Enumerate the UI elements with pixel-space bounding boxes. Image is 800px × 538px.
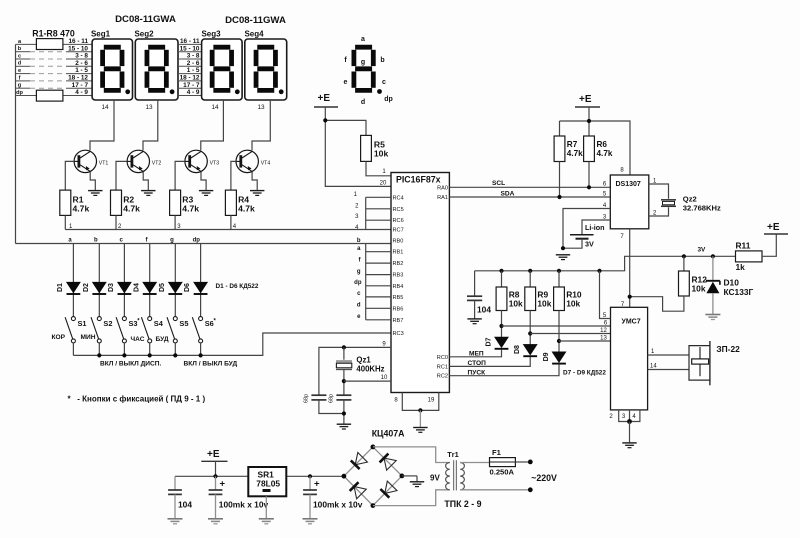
svg-text:100mk x 10v: 100mk x 10v	[219, 500, 269, 510]
svg-text:RC6: RC6	[393, 218, 404, 224]
svg-text:4.7k: 4.7k	[597, 149, 613, 158]
junction R12 top	[682, 254, 686, 258]
svg-text:b: b	[94, 238, 98, 244]
svg-text:16 - 11: 16 - 11	[68, 38, 88, 45]
switch S4	[141, 317, 151, 343]
svg-text:13: 13	[600, 336, 607, 342]
svg-text:RB6: RB6	[393, 306, 404, 312]
junction battery ground	[561, 246, 565, 250]
svg-text:D10: D10	[724, 278, 740, 288]
svg-text:D3: D3	[108, 283, 115, 292]
wire DS pin4 to ground	[563, 209, 610, 249]
ground D10 (gray)	[705, 315, 720, 320]
wire to UMS7 pin6	[502, 325, 611, 327]
wire digit bus riser at PIC	[365, 197, 367, 229]
svg-text:13: 13	[257, 104, 265, 111]
wire segment bus left vertical	[15, 44, 17, 243]
svg-text:VT1: VT1	[99, 161, 109, 167]
wire PIC pin9 to crystal	[319, 347, 391, 395]
svg-text:14: 14	[101, 104, 109, 111]
resistor R12	[679, 271, 690, 296]
wire PSU output rail	[175, 475, 344, 477]
wire R9 bottom to D8	[529, 311, 531, 345]
wire SR1 ground	[265, 496, 267, 518]
resistor R6	[584, 136, 595, 162]
svg-text:dp: dp	[384, 96, 393, 103]
diode D2	[92, 282, 106, 294]
svg-text:ЗП-22: ЗП-22	[716, 344, 740, 354]
wire R6 to SCL	[588, 162, 590, 188]
wire UMS7 pin1 to buzzer	[648, 354, 689, 356]
net labels on key bus a b c f g dp	[68, 238, 200, 244]
pin pair labels left set	[68, 38, 88, 96]
svg-text:Seg3: Seg3	[201, 30, 221, 39]
resistor R1	[60, 190, 71, 215]
svg-text:ВКЛ / ВЫКЛ БУД: ВКЛ / ВЫКЛ БУД	[184, 361, 238, 368]
wire R5 to PIC pin1	[366, 161, 391, 175]
svg-text:b: b	[357, 238, 361, 244]
ground Q4	[250, 191, 264, 196]
svg-text:Тr1: Тr1	[447, 450, 459, 459]
svg-text:DC08-11GWA: DC08-11GWA	[225, 15, 286, 26]
svg-text:68p: 68p	[329, 394, 335, 403]
junction bridge right	[400, 474, 405, 479]
svg-text:МИН: МИН	[81, 334, 96, 341]
wire S5 bottom drop	[174, 343, 176, 356]
junction bridge left	[342, 474, 347, 479]
svg-text:ЧАС: ЧАС	[131, 336, 145, 343]
switch S5	[167, 317, 177, 343]
resistor R2	[111, 190, 122, 215]
svg-text:RB5: RB5	[393, 295, 404, 301]
wire D6 column	[200, 244, 202, 317]
wire bridge right to ground	[402, 475, 417, 477]
svg-text:a: a	[361, 36, 365, 43]
svg-text:RC5: RC5	[393, 207, 404, 213]
wire D2 column	[98, 244, 100, 317]
terminal line bottom	[528, 487, 533, 492]
svg-text:d: d	[357, 303, 361, 309]
ground bridge	[410, 482, 424, 487]
svg-text:+E: +E	[207, 449, 220, 460]
wire Seg2 pin13 to Q2 collector	[143, 100, 158, 150]
segment row wires a-dp with left labels and dashes	[16, 44, 93, 95]
svg-text:D1: D1	[57, 283, 64, 292]
svg-text:15 - 10: 15 - 10	[68, 45, 88, 52]
resistor R11	[736, 251, 763, 262]
junction +E left	[323, 118, 327, 122]
wires between Seg2 and Seg3 (8 rows)	[178, 44, 202, 95]
wire RC2 PUSK to D9	[449, 364, 559, 375]
svg-text:RC1: RC1	[437, 364, 448, 370]
wire Q1 base to R1	[65, 161, 74, 190]
wire S3 bottom drop	[123, 343, 125, 356]
ground C6 (gray)	[303, 519, 318, 524]
net labels at PIC RB pins	[354, 238, 362, 320]
svg-text:d: d	[18, 61, 22, 67]
ground UMS7	[622, 443, 636, 448]
MAIN	[16, 14, 393, 244]
wire R4 bottom to digit bus	[230, 215, 232, 229]
wire RC5 stub	[366, 208, 391, 210]
svg-text:+E: +E	[318, 93, 331, 104]
svg-text:SDA: SDA	[501, 191, 515, 198]
wire to UMS7 pin12	[530, 333, 610, 335]
display Seg1	[92, 39, 132, 100]
svg-text:dp: dp	[193, 238, 201, 244]
svg-text:78L05: 78L05	[256, 479, 280, 489]
svg-text:D4: D4	[133, 283, 140, 292]
svg-text:МЕП: МЕП	[469, 350, 484, 357]
svg-text:10k: 10k	[374, 149, 389, 159]
crystal Qz2 32.768KHz	[661, 199, 676, 201]
wire Q2 base to R2	[116, 161, 127, 190]
wire UMS7 pin14 to buzzer	[648, 369, 689, 371]
svg-text:SCL: SCL	[492, 180, 505, 187]
wire RB2 stub	[366, 262, 391, 264]
svg-text:S3: S3	[129, 319, 138, 328]
resistor R9	[525, 287, 536, 311]
junction crystal top	[342, 345, 346, 349]
wire +E to R7 R6 and DS pin8	[560, 107, 631, 175]
wire R10 bottom to D9	[558, 311, 560, 352]
diode D4	[143, 282, 157, 294]
svg-text:RA1: RA1	[437, 195, 448, 201]
junction D7 UMS7 pin6	[499, 324, 503, 328]
wire RC1 STOP to D8	[449, 357, 530, 367]
svg-text:b: b	[18, 46, 22, 52]
svg-text:10: 10	[381, 375, 388, 381]
svg-text:0.250А: 0.250А	[490, 468, 515, 477]
wire fuse to line terminal	[515, 461, 530, 463]
svg-text:4.7k: 4.7k	[182, 204, 199, 214]
ground Q1	[88, 191, 102, 196]
junction rail R8	[499, 269, 503, 273]
junction D8 UMS7 pin12	[528, 331, 532, 335]
wire +E drop to rail	[215, 461, 217, 476]
wire transformer primary bottom to terminal	[460, 489, 530, 491]
ground osc	[337, 424, 351, 429]
svg-text:RC4: RC4	[393, 195, 404, 201]
svg-text:~220V: ~220V	[531, 473, 557, 483]
wire PIC pins 8 19 to ground	[402, 393, 439, 411]
wire D5 column	[174, 244, 176, 317]
resistor R10	[554, 287, 565, 311]
wire UMS7 pin5 riser to 3V rail	[600, 271, 611, 319]
wire R11 to +E	[762, 234, 776, 256]
wire segment bus to PIC RB0	[16, 243, 392, 245]
diode D1	[67, 282, 81, 294]
svg-text:+E: +E	[579, 94, 592, 105]
row labels a b c d e f g dp	[16, 39, 23, 96]
svg-text:104: 104	[178, 500, 192, 510]
svg-text:D7: D7	[486, 337, 493, 346]
svg-text:RB2: RB2	[393, 261, 404, 267]
svg-text:4 - 9: 4 - 9	[75, 89, 88, 96]
svg-text:c: c	[18, 53, 21, 59]
wire Q4 base to R4	[231, 161, 236, 190]
junction R6 SCL	[587, 185, 591, 189]
svg-text:RB3: RB3	[393, 273, 404, 279]
segment legend digit	[344, 36, 393, 106]
ground C4 (gray)	[168, 519, 183, 524]
bridge diode bottom-left	[354, 487, 366, 499]
switch S6	[192, 317, 202, 343]
wire RC0 MEL to D7	[449, 350, 501, 357]
svg-text:10k: 10k	[537, 298, 551, 308]
wire keys common to PIC RC3	[73, 333, 391, 355]
svg-text:S6: S6	[205, 319, 214, 328]
wire RB5 stub	[366, 296, 391, 298]
svg-text:13: 13	[145, 104, 153, 111]
svg-text:S5: S5	[179, 319, 188, 328]
svg-text:КС133Г: КС133Г	[724, 287, 754, 297]
svg-text:RC0: RC0	[437, 355, 448, 361]
voltage regulator SR1 78L05	[248, 467, 286, 496]
svg-text:4.7k: 4.7k	[123, 204, 140, 214]
wire R1 bottom to digit bus	[64, 215, 66, 229]
svg-text:e: e	[18, 68, 21, 74]
svg-text:g: g	[18, 83, 22, 89]
ground Q2	[141, 191, 155, 196]
svg-text:g: g	[170, 238, 174, 244]
svg-text:RC2: RC2	[437, 374, 448, 380]
svg-text:10k: 10k	[566, 298, 580, 308]
wire pin10	[344, 380, 391, 382]
svg-text:УМС7: УМС7	[622, 319, 641, 326]
svg-text:VT4: VT4	[261, 161, 271, 167]
ground C5 (gray)	[208, 519, 223, 524]
svg-text:RC3: RC3	[393, 331, 404, 337]
svg-text:32.768KHz: 32.768KHz	[683, 204, 721, 213]
wire D3 column	[123, 244, 125, 317]
junction rail R9	[528, 269, 532, 273]
svg-text:12: 12	[600, 328, 607, 334]
switch S2	[91, 317, 101, 343]
terminal line top	[528, 460, 533, 465]
wire R10 top	[558, 271, 560, 287]
capacitor C3 104	[467, 295, 482, 297]
resistor R3	[170, 190, 181, 215]
switch S1	[65, 317, 75, 343]
wire RB4 stub	[366, 285, 391, 287]
svg-text:S1: S1	[78, 319, 87, 328]
junction S6	[199, 353, 203, 357]
wire R12 bottom zigzag to DS pin7 column	[630, 296, 684, 311]
wire to UMS7 pin13	[559, 340, 611, 342]
svg-text:S4: S4	[154, 319, 164, 328]
wire bridge bottom to transformer secondary	[373, 490, 450, 506]
svg-text:e: e	[344, 79, 348, 86]
transistor Q4	[236, 150, 258, 172]
svg-text:c: c	[382, 79, 386, 86]
capacitor C6 100mk x 10v	[309, 476, 311, 490]
junction bridge bottom	[371, 503, 376, 508]
svg-text:ПУСК: ПУСК	[468, 369, 487, 376]
wire Seg1 pin14 to Q1 collector	[90, 100, 114, 150]
svg-text:f: f	[19, 75, 21, 81]
svg-text:g: g	[361, 59, 365, 66]
switch S3	[116, 317, 126, 343]
junction S3	[122, 353, 126, 357]
wire RB1 stub	[366, 251, 391, 253]
wire R8 top	[501, 271, 503, 287]
svg-text:19: 19	[428, 398, 435, 404]
svg-text:СТОП: СТОП	[468, 360, 487, 367]
diode D3	[118, 282, 132, 294]
bridge rectifier KTs407A	[344, 447, 402, 506]
svg-text:VT3: VT3	[210, 161, 220, 167]
svg-text:D1 - D6 КД522: D1 - D6 КД522	[216, 283, 259, 290]
fuse F1 0.250A	[490, 458, 516, 467]
svg-text:КОР: КОР	[52, 334, 66, 341]
wire R2 bottom to digit bus	[115, 215, 117, 229]
wire Q3 emitter to ground	[201, 172, 206, 191]
wire 3V rail	[475, 256, 736, 296]
junction +E rail	[213, 474, 217, 478]
diode D9	[552, 352, 566, 364]
svg-text:Qz1: Qz1	[356, 356, 371, 365]
wire Q3 base to R3	[175, 161, 185, 190]
wire DS pin3 to battery	[582, 220, 610, 234]
wire transformer primary top to fuse	[460, 462, 489, 464]
junction osc caps	[342, 411, 346, 415]
svg-text:R7: R7	[567, 140, 578, 149]
svg-text:2 - 6: 2 - 6	[75, 60, 88, 67]
resistor network box row dp	[36, 90, 63, 101]
wire S2 bottom drop	[98, 343, 100, 356]
svg-text:D7 - D9 КД522: D7 - D9 КД522	[563, 370, 606, 377]
display Seg3	[202, 39, 243, 100]
svg-text:d: d	[361, 99, 365, 106]
svg-text:RC7: RC7	[393, 228, 404, 234]
wire S4 bottom drop	[149, 343, 151, 356]
svg-text:RB1: RB1	[393, 250, 404, 256]
wire R9 top	[529, 271, 531, 287]
svg-text:* - Кнопки с фиксацией ( ПД: * - Кнопки с фиксацией ( ПД 9 - 1 )	[68, 395, 206, 404]
display Seg2	[135, 39, 178, 100]
wire DS pin2 to crystal	[649, 207, 669, 216]
junction PIC ground	[418, 408, 422, 412]
pin pair labels middle set	[180, 38, 200, 96]
display Seg4	[245, 39, 287, 100]
junction R7 SDA	[557, 195, 561, 199]
wire SDA RA1 to DS pin5	[449, 196, 610, 198]
wire UMS7 pins 2 3 4 to ground	[619, 410, 640, 422]
wire Q4 emitter to ground	[252, 172, 257, 191]
svg-text:D6: D6	[184, 283, 191, 292]
diode D7	[495, 337, 509, 349]
junction rail UMS7 pin5	[597, 269, 601, 273]
svg-text:68p: 68p	[304, 394, 310, 403]
wire bridge top to transformer secondary	[373, 447, 450, 463]
capacitor C2 (right osc cap)	[336, 394, 351, 396]
svg-text:R6: R6	[597, 140, 608, 149]
junction S2	[97, 353, 101, 357]
svg-text:D9: D9	[543, 352, 550, 361]
wire DS pin1 to crystal	[649, 184, 669, 199]
PIC right pin names	[437, 185, 448, 379]
IC U2 DS1307 body	[610, 175, 649, 229]
wire RC4 stub	[366, 196, 391, 198]
svg-text:БУД: БУД	[156, 336, 169, 343]
junction rail R10	[557, 269, 561, 273]
svg-text:17 - 7: 17 - 7	[72, 82, 89, 89]
svg-text:+: +	[220, 479, 226, 490]
svg-text:20: 20	[380, 181, 387, 187]
capacitor C1 (left osc cap)	[311, 394, 326, 396]
resistor R5	[361, 135, 372, 161]
junction DS pin7 / UMS7	[628, 295, 632, 299]
wire S1 bottom drop	[72, 343, 74, 356]
svg-text:10k: 10k	[692, 284, 706, 294]
svg-text:ВКЛ / ВЫКЛ ДИСП.: ВКЛ / ВЫКЛ ДИСП.	[100, 361, 162, 368]
wire R3 bottom to digit bus	[174, 215, 176, 229]
svg-text:D8: D8	[514, 345, 521, 354]
wire DS pin7 down to UMS7 pin7	[629, 229, 631, 307]
battery Li-ion 3V	[570, 234, 594, 236]
svg-text:КЦ407А: КЦ407А	[372, 429, 405, 439]
wire osc caps to ground	[319, 400, 344, 424]
junction crystal bottom	[342, 379, 346, 383]
resistor R7	[554, 136, 565, 162]
wire RB3 stub	[366, 274, 391, 276]
svg-text:R11: R11	[736, 241, 751, 251]
svg-text:R1-R8 470: R1-R8 470	[32, 29, 75, 39]
svg-text:18 - 12: 18 - 12	[68, 75, 88, 82]
svg-text:4.7k: 4.7k	[73, 204, 90, 214]
svg-text:10k: 10k	[509, 298, 523, 308]
svg-text:F1: F1	[492, 448, 502, 457]
svg-text:b: b	[380, 57, 384, 64]
wire battery minus to ground junction	[563, 239, 582, 249]
ground battery	[556, 255, 570, 260]
svg-text:400KHz: 400KHz	[356, 365, 384, 374]
wire to PIC ground	[419, 410, 421, 427]
wire digit-select bus to PIC RC7	[65, 229, 391, 231]
junction +E right	[587, 119, 591, 123]
ground SR1 (gray)	[259, 519, 274, 524]
junction D9 UMS7 pin13	[557, 339, 561, 343]
svg-text:D5: D5	[159, 283, 166, 292]
svg-text:Qz2: Qz2	[683, 195, 697, 204]
wire Q2 emitter to ground	[143, 172, 148, 191]
svg-text:+: +	[314, 479, 320, 490]
crystal Qz1 400KHz	[336, 360, 352, 362]
ground Q3	[199, 191, 213, 196]
svg-text:14: 14	[650, 364, 657, 370]
svg-text:104: 104	[477, 305, 491, 315]
svg-text:PIC16F87x: PIC16F87x	[396, 175, 441, 185]
svg-text:DS1307: DS1307	[616, 181, 641, 188]
svg-text:RA0: RA0	[437, 185, 448, 191]
wire +E to pin20 and R5	[325, 107, 391, 186]
svg-text:14: 14	[211, 104, 219, 111]
wire segment bus riser at PIC	[365, 244, 367, 320]
wire D4 column	[149, 244, 151, 317]
diode D5	[168, 282, 182, 294]
diode D8	[523, 344, 537, 356]
diode D6	[194, 282, 208, 294]
resistor network box row a	[36, 39, 63, 50]
wire R12 column	[683, 256, 685, 271]
svg-text:9V: 9V	[430, 474, 440, 483]
svg-text:RB4: RB4	[393, 284, 404, 290]
junction C6 rail	[308, 474, 312, 478]
svg-text:Li-ion: Li-ion	[585, 223, 605, 232]
wire Seg3 pin14 to Q3 collector	[201, 100, 224, 150]
bridge diode top-right	[384, 458, 396, 470]
